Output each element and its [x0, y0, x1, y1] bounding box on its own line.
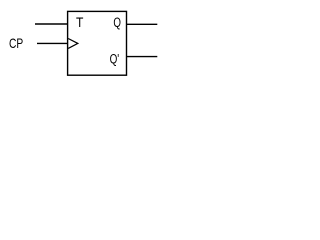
- svg-text:Q': Q': [110, 51, 120, 66]
- svg-text:T: T: [76, 14, 84, 30]
- flip-flop body U1: [68, 11, 127, 75]
- svg-text:Q: Q: [113, 15, 121, 30]
- wire Q' output: [127, 56, 158, 58]
- svg-text:CP: CP: [9, 35, 23, 51]
- wire Q output: [127, 23, 158, 25]
- wire CP input: [37, 42, 68, 44]
- wire T input: [35, 23, 68, 25]
- clock edge triangle: [68, 39, 78, 49]
